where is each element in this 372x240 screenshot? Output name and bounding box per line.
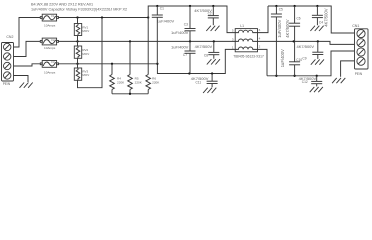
svg-text:6: 6 — [259, 28, 261, 32]
wire choke row3 out — [258, 49, 268, 75]
node rail3-R4 — [111, 63, 113, 65]
svg-text:C12: C12 — [302, 80, 308, 84]
capacitor C1 — [152, 6, 175, 64]
svg-text:1uF/400V: 1uF/400V — [157, 19, 175, 24]
wire choke row1 out — [258, 6, 269, 33]
wire rail L3 — [59, 63, 158, 65]
svg-text:10Amps: 10Amps — [44, 24, 56, 28]
node row2-C9 — [317, 40, 319, 42]
sheet header text — [31, 2, 127, 11]
capacitor C8 — [195, 41, 220, 58]
fuse F1 — [40, 14, 58, 28]
svg-text:10Amps: 10Amps — [44, 70, 56, 74]
capacitor C11 — [191, 74, 218, 88]
svg-text:C3: C3 — [184, 23, 188, 27]
ground output PE — [332, 78, 345, 83]
node rail2-RV — [76, 40, 78, 42]
ground PE input — [20, 83, 33, 88]
capacitor C7 — [171, 41, 196, 73]
svg-text:C11: C11 — [196, 81, 202, 85]
svg-text:3: 3 — [232, 37, 234, 41]
svg-text:4K7/500V: 4K7/500V — [285, 19, 290, 38]
wire resistor star bus — [112, 93, 148, 95]
svg-text:4K7/500V: 4K7/500V — [323, 8, 328, 27]
capacitor C10 — [280, 41, 302, 75]
svg-text:220K: 220K — [152, 80, 160, 84]
svg-text:PE/N: PE/N — [3, 82, 11, 86]
svg-text:T88405-S6123-X317: T88405-S6123-X317 — [233, 54, 264, 58]
capacitor C5 — [271, 6, 283, 76]
svg-text:1uF/400V Capacitor Vishay F339: 1uF/400V Capacitor Vishay F3393X2(I)4X22… — [31, 7, 127, 11]
choke L1 — [232, 24, 264, 58]
ground C8 — [207, 59, 220, 64]
capacitor C2 — [194, 6, 219, 25]
wire CN2-3 to F3 — [14, 64, 41, 66]
node topwire2-C5 — [275, 5, 277, 7]
capacitor C12 — [299, 76, 323, 87]
svg-text:220K: 220K — [117, 80, 125, 84]
ground C2 — [206, 26, 219, 31]
svg-text:MOV: MOV — [82, 52, 89, 56]
svg-text:L1: L1 — [240, 24, 244, 28]
svg-text:4: 4 — [259, 37, 261, 41]
svg-text:10Amps: 10Amps — [44, 46, 56, 50]
svg-text:C8: C8 — [204, 54, 208, 58]
svg-text:CN2: CN2 — [6, 35, 13, 39]
node rail3-C1 — [156, 63, 158, 65]
svg-text:4K7/500V: 4K7/500V — [195, 44, 213, 49]
node topwire-C1 — [156, 5, 158, 7]
capacitor C3 — [171, 6, 196, 41]
svg-text:C7: C7 — [183, 53, 187, 57]
svg-text:C6: C6 — [297, 17, 301, 21]
node star — [129, 93, 131, 95]
resistor R6 — [146, 18, 160, 94]
node rail1-RV1 — [76, 16, 78, 18]
wire rail L3 lower run — [157, 49, 235, 73]
svg-text:4K7/500V: 4K7/500V — [297, 44, 315, 49]
svg-text:C1: C1 — [160, 7, 164, 11]
wire choke row2 out to CN1 — [258, 41, 355, 44]
ground C9 — [311, 59, 324, 64]
capacitor C4 — [312, 6, 329, 27]
svg-text:1uF/400V: 1uF/400V — [280, 49, 285, 67]
resistor R5 — [128, 41, 143, 93]
node rail2-R5 — [129, 40, 131, 42]
wire L1 output top — [268, 6, 355, 33]
svg-text:1uF/400V: 1uF/400V — [171, 30, 189, 35]
wire CN2-2 to F2 — [14, 41, 41, 56]
svg-text:4K7/500V: 4K7/500V — [194, 8, 212, 13]
ground C4 — [310, 26, 323, 31]
node rail3low-C7 — [188, 72, 190, 74]
wire rail L2 — [59, 40, 236, 42]
node rail3low-C11 — [211, 72, 213, 74]
svg-text:PE/N: PE/N — [355, 72, 363, 76]
node topwire-C2 — [212, 5, 214, 7]
node topwire2-C4 — [316, 5, 318, 7]
svg-text:MOV: MOV — [82, 73, 89, 77]
capacitor C6 — [289, 6, 301, 41]
varistor RV1 — [74, 18, 89, 42]
connector CN2 — [2, 35, 14, 86]
wire L3 bottom bus — [267, 51, 355, 76]
fuse F3 — [40, 60, 58, 74]
svg-text:220K: 220K — [135, 80, 143, 84]
node topwire-C3 — [189, 5, 191, 7]
connector CN1 — [352, 24, 368, 76]
node topwire2-C6 — [293, 5, 295, 7]
wire CN1-4 to ground — [341, 61, 355, 77]
svg-text:CN1: CN1 — [352, 24, 359, 28]
svg-text:1uF/400V: 1uF/400V — [171, 44, 189, 49]
wire CN2-1 to F1 — [14, 18, 41, 48]
ground C11 — [203, 88, 216, 93]
node rail3-RV — [76, 63, 78, 65]
fuse F2 — [40, 38, 58, 50]
varistor RV3 — [74, 64, 89, 81]
svg-text:2: 2 — [259, 45, 261, 49]
svg-text:MOV: MOV — [82, 29, 89, 33]
node rail1-riser — [147, 16, 149, 18]
resistor R4 — [110, 64, 125, 94]
node bus2-C10 — [293, 75, 295, 77]
node row2-C6 — [293, 40, 295, 42]
svg-text:C9: C9 — [302, 57, 306, 61]
node rail2-C7 — [189, 40, 191, 42]
wire rail L1 — [59, 17, 149, 19]
node rail2-C8 — [213, 40, 215, 42]
svg-text:1: 1 — [232, 45, 234, 49]
varistor RV2 — [74, 41, 89, 63]
wire top bypass L1 — [148, 6, 235, 33]
svg-text:5: 5 — [232, 29, 234, 33]
svg-text:1uF/400V: 1uF/400V — [277, 19, 282, 37]
wire CN2-4 to ground — [14, 76, 29, 83]
svg-text:B4.WX.88 220V AND 2X12 REV.A01: B4.WX.88 220V AND 2X12 REV.A01 — [31, 2, 93, 6]
node bus2-C5 — [275, 75, 277, 77]
capacitor C9 — [297, 41, 324, 60]
node rail1-MOV-return — [101, 16, 103, 18]
node bus2-C12 — [316, 75, 318, 77]
svg-text:C5: C5 — [279, 7, 283, 11]
wire MOV return to L1 — [78, 18, 103, 88]
ground C12 — [310, 87, 323, 92]
